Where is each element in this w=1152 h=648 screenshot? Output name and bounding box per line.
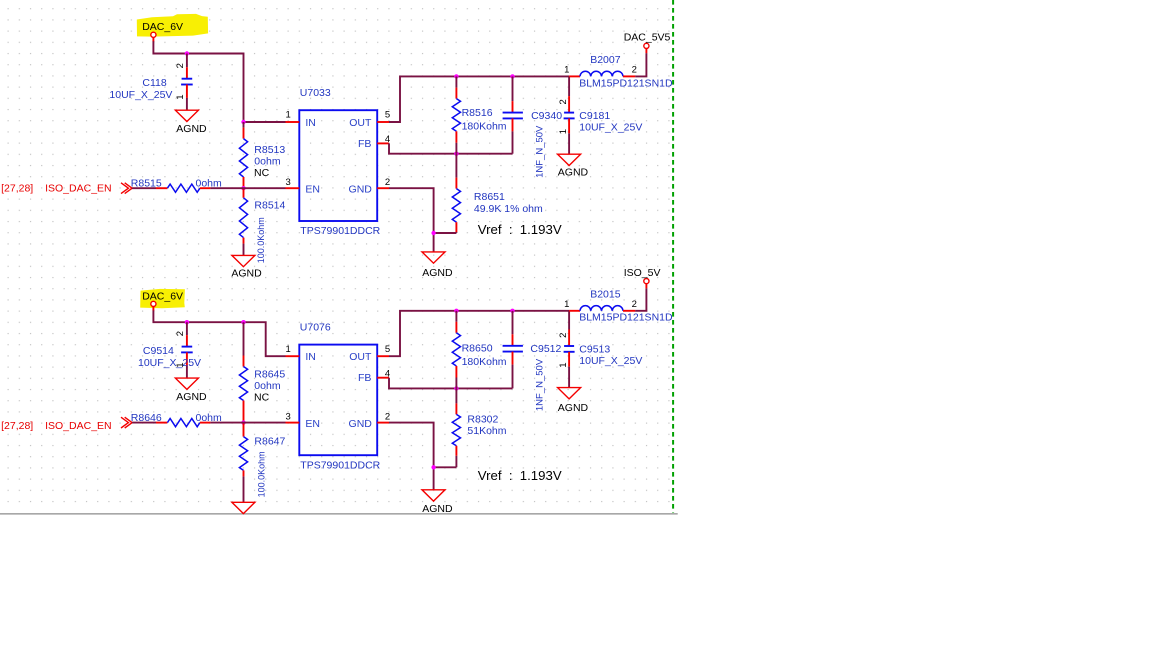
svg-text:TPS79901DDCR: TPS79901DDCR [300,225,380,237]
svg-text:1: 1 [558,362,569,367]
svg-text:1NF_N_50V: 1NF_N_50V [534,125,545,178]
svg-text:AGND: AGND [422,503,453,515]
svg-text:2: 2 [558,99,569,104]
node DAC_5V5 terminal [635,53,646,76]
svg-text:R8515: R8515 [131,177,162,189]
junction FB net at R8516/R8651 [454,152,458,156]
junction rail at R8516 [454,74,458,78]
svg-text:0ohm: 0ohm [254,155,281,167]
svg-text:BLM15PD121SN1D: BLM15PD121SN1D [579,312,673,324]
op-amp/regulator U7033 TPS79901DDCR [299,110,377,221]
svg-text:BLM15PD121SN1D: BLM15PD121SN1D [579,77,673,89]
svg-text:2: 2 [558,333,569,338]
svg-text:1NF_N_50V: 1NF_N_50V [534,358,545,411]
junction EN net at R8513/R8514 [241,186,245,190]
svg-text:AGND: AGND [176,391,207,403]
pin EN (3) [286,422,300,424]
svg-text:B2007: B2007 [590,54,621,66]
svg-text:Vref : 1.193V: Vref : 1.193V [478,468,562,483]
svg-text:R8651: R8651 [474,191,505,203]
ferrite bead (inductor) B2015 BLM15PD121SN1D [569,310,580,312]
svg-text:ISO_DAC_EN: ISO_DAC_EN [45,182,112,194]
svg-text:10UF_X_25V: 10UF_X_25V [579,355,642,367]
svg-text:1: 1 [564,299,569,310]
svg-text:C9513: C9513 [579,344,610,356]
junction GND net [431,231,435,235]
svg-text:C118: C118 [142,77,166,89]
svg-text:FB: FB [358,138,371,150]
svg-text:B2015: B2015 [590,289,621,301]
svg-text:Vref : 1.193V: Vref : 1.193V [478,222,562,237]
svg-text:51Kohm: 51Kohm [467,425,506,437]
svg-text:[27,28]: [27,28] [1,420,33,432]
svg-text:100.0Kohm: 100.0Kohm [256,217,266,263]
pin OUT (5) [377,355,389,357]
ground AGND under C9513 [558,388,581,399]
svg-text:OUT: OUT [349,351,372,363]
pin GND (2) [377,422,389,424]
svg-text:C9181: C9181 [579,110,610,122]
svg-text:3: 3 [286,177,291,188]
svg-text:DAC_5V5: DAC_5V5 [624,32,671,44]
svg-text:IN: IN [305,351,316,363]
resistor R8515 0ohm (series) [132,187,156,189]
svg-text:2: 2 [632,299,637,310]
junction rail at R8650 [454,309,458,313]
svg-text:1: 1 [175,95,186,100]
svg-text:R8302: R8302 [467,413,498,425]
ferrite bead (inductor) B2007 BLM15PD121SN1D [569,75,580,77]
svg-text:AGND: AGND [558,167,589,179]
pin FB (4) [377,142,389,144]
svg-text:1: 1 [558,129,569,134]
svg-text:NC: NC [254,391,270,403]
svg-text:180Kohm: 180Kohm [462,356,507,368]
pin FB (4) [377,377,389,379]
off-page connector ISO_DAC_EN [27,28] [121,417,128,428]
capacitor C9513 10UF_X_25V [568,311,570,330]
wire FB net [389,143,513,153]
svg-text:2: 2 [175,331,186,336]
ground AGND under C9181 [558,154,581,165]
svg-text:ISO_DAC_EN: ISO_DAC_EN [45,420,112,432]
svg-text:C9340: C9340 [531,110,562,122]
svg-text:R8646: R8646 [131,412,162,424]
svg-text:R8516: R8516 [462,107,493,119]
svg-text:IN: IN [305,117,316,129]
svg-text:R8514: R8514 [254,200,285,212]
pin GND (2) [377,187,389,189]
svg-text:3: 3 [286,411,291,422]
svg-text:1: 1 [286,344,291,355]
svg-text:5: 5 [385,110,390,121]
junction DAC_6V (2) at RR8645 tap [241,320,245,324]
junction GND net [431,465,435,469]
resistor R8651 49.9K 1% ohm [455,154,457,178]
svg-text:GND: GND [349,418,373,430]
pin EN (3) [286,187,300,189]
svg-text:5: 5 [385,344,390,355]
svg-text:TPS79901DDCR: TPS79901DDCR [300,459,380,471]
svg-text:0ohm: 0ohm [254,380,281,392]
svg-text:49.9K 1% ohm: 49.9K 1% ohm [474,203,543,215]
svg-text:1: 1 [564,65,569,76]
svg-text:2: 2 [385,177,390,188]
svg-text:1: 1 [286,110,291,121]
ground AGND under C9514 [175,378,198,389]
wire DAC_6V input net [152,38,154,42]
svg-text:U7033: U7033 [300,87,331,99]
wire FB net [389,378,513,389]
svg-text:2: 2 [632,65,637,76]
svg-text:C9514: C9514 [143,345,174,357]
svg-text:180Kohm: 180Kohm [462,121,507,133]
node DAC_6V (highlighted net label + terminal) [137,14,208,37]
wire EN net [210,422,285,424]
svg-text:GND: GND [349,184,373,196]
pin IN (1) [286,121,300,123]
ground AGND at GND pin [422,252,445,263]
svg-text:DAC_6V: DAC_6V [142,21,183,33]
svg-text:AGND: AGND [176,123,207,135]
wire DAC_6V (2) input net [152,307,154,311]
svg-text:10UF_X_25V: 10UF_X_25V [138,357,201,369]
wire EN net [210,187,285,189]
wire GND net (pin 2) [389,188,434,252]
resistor R8514 100.0Kohm [243,188,245,198]
svg-text:EN: EN [305,184,320,196]
capacitor C118 10UF_X_25V [186,54,188,68]
resistor R8645 0ohm NC [243,322,245,355]
capacitor C9514 10UF_X_25V [186,322,188,335]
junction DAC_6V at RR8513 tap [241,120,245,124]
svg-text:100.0Kohm: 100.0Kohm [257,451,267,497]
svg-text:FB: FB [358,372,371,384]
svg-text:AGND: AGND [558,402,589,414]
svg-text:AGND: AGND [422,267,453,279]
resistor R8647 100.0Kohm [243,423,245,437]
resistor R8646 0ohm (series) [132,422,156,424]
svg-text:NC: NC [254,167,270,179]
svg-text:2: 2 [385,411,390,422]
svg-text:OUT: OUT [349,117,372,129]
svg-text:R8645: R8645 [254,368,285,380]
resistor R8302 51Kohm [455,388,457,403]
ground AGND under C118 [175,110,198,121]
capacitor C9181 10UF_X_25V [568,76,570,96]
junction rail at C9512 [510,309,514,313]
svg-text:R8513: R8513 [254,144,285,156]
svg-text:10UF_X_25V: 10UF_X_25V [579,121,642,133]
junction EN net at R8645/R8647 [241,420,245,424]
off-page connector ISO_DAC_EN [27,28] [121,183,128,194]
svg-text:R8650: R8650 [462,343,493,355]
capacitor C9512 1NF_N_50V [512,311,514,335]
junction DAC_6V (2) at CC9514 tap [185,320,189,324]
node DAC_6V (2) (highlighted net label + terminal) [140,289,185,308]
svg-text:AGND: AGND [231,267,262,279]
svg-text:U7076: U7076 [300,321,331,333]
pin OUT (5) [377,121,389,123]
junction FB net at R8650/R8302 [454,386,458,390]
svg-text:DAC_6V: DAC_6V [142,290,183,302]
svg-text:2: 2 [175,63,186,68]
ground AGND under R8514 [232,255,255,266]
svg-text:10UF_X_25V: 10UF_X_25V [109,89,172,101]
capacitor C9340 1NF_N_50V [512,76,514,101]
svg-text:R8647: R8647 [254,435,285,447]
junction DAC_6V at CC118 tap [185,51,189,55]
pin IN (1) [286,355,300,357]
wire ISO_5V output rail [389,311,569,356]
op-amp/regulator U7076 TPS79901DDCR [299,345,377,456]
ground AGND under R8647 [232,502,255,513]
resistor R8513 0ohm NC [243,122,245,128]
svg-text:EN: EN [305,418,320,430]
wire DAC_5V5 output rail [389,76,569,122]
ground AGND at GND pin [422,490,445,501]
resistor R8650 180Kohm [455,311,457,322]
svg-text:C9512: C9512 [530,343,561,355]
svg-text:ISO_5V: ISO_5V [624,267,661,279]
junction rail at C9340 [510,74,514,78]
wire GND net (pin 2) [389,423,434,490]
resistor R8516 180Kohm [455,76,457,87]
node ISO_5V terminal [635,288,646,311]
svg-text:[27,28]: [27,28] [1,182,33,194]
